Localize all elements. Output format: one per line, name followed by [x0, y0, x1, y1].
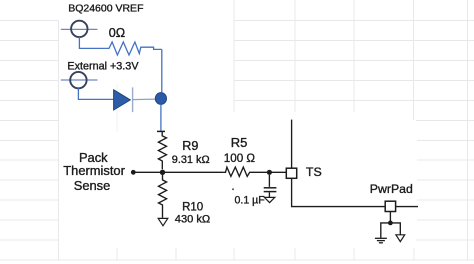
bottom row line — [0, 259, 474, 261]
PwrPad stub down — [389, 212, 391, 223]
earth ground symbol left of PwrPad — [375, 238, 387, 243]
ground arrow R10 (open triangle) — [158, 218, 168, 225]
capacitor plate top — [264, 187, 277, 189]
wire diode to junction — [133, 98, 156, 101]
column A edge — [57, 21, 59, 260]
columns top-right — [234, 0, 413, 120]
junction dot R9/R10 — [160, 170, 165, 175]
rows left strip — [0, 21, 58, 240]
wire External circle to diode anode — [78, 88, 113, 99]
stray dot artifact above 0.1uF — [232, 188, 234, 190]
svg-text:R5: R5 — [231, 135, 248, 150]
capacitor plate bottom — [264, 191, 277, 193]
capacitor C1 0.1uF vertical lead — [268, 175, 270, 187]
wire resistor down to node — [161, 49, 163, 93]
resistor R10 — [159, 175, 167, 218]
resistor 0 ohm (blue zigzag) — [106, 42, 162, 55]
TS pin square — [286, 168, 296, 178]
svg-text:430 kΩ: 430 kΩ — [175, 213, 210, 225]
ground arrow right of PwrPad (open triangle) — [396, 235, 405, 242]
junction node (blue dot) — [155, 93, 166, 105]
junction dot PwrPad ground — [388, 221, 393, 226]
TS pin vertical wire bottom and run to PwrPad — [292, 178, 418, 206]
PwrPad pin square — [385, 201, 395, 211]
wire endpoint dot (Pack Thermistor Sense) — [131, 170, 136, 175]
rows right strip — [417, 140, 474, 220]
bottom column ticks — [117, 248, 414, 260]
svg-text:TS: TS — [306, 165, 322, 179]
svg-text:R10: R10 — [182, 201, 203, 213]
diode D1 (blue) — [114, 90, 131, 110]
rows top-right block — [234, 21, 474, 101]
svg-text:BQ24600 VREF: BQ24600 VREF — [68, 3, 143, 15]
wire VREF circle to resistor 0ohm — [79, 37, 106, 49]
row segment right of overlay — [416, 120, 474, 240]
diode cathode bar — [132, 87, 134, 112]
wire Pack Thermistor Sense to R5 — [133, 171, 223, 173]
resistor R9 — [158, 131, 166, 169]
svg-text:Thermistor: Thermistor — [63, 163, 125, 178]
faint column segment near diode — [116, 84, 118, 132]
column far right — [467, 0, 469, 260]
svg-text:0.1 µF: 0.1 µF — [235, 194, 266, 206]
svg-text:100 Ω: 100 Ω — [224, 152, 256, 165]
svg-text:External +3.3V: External +3.3V — [67, 61, 139, 73]
node External +3.3V terminal lead line — [61, 79, 98, 81]
svg-text:0Ω: 0Ω — [109, 26, 125, 40]
resistor R5 — [223, 167, 286, 176]
ground branch right — [390, 223, 400, 235]
terminal circle External +3.3V — [70, 72, 86, 88]
ground branch left — [381, 223, 391, 238]
junction dot capacitor — [267, 170, 272, 175]
capacitor lower lead — [268, 192, 270, 197]
svg-text:9.31 kΩ: 9.31 kΩ — [172, 154, 210, 166]
TS pin vertical wire top — [291, 120, 293, 169]
terminal circle VREF — [71, 21, 87, 37]
wire junction down to R9 — [160, 104, 162, 130]
svg-text:R9: R9 — [182, 139, 198, 153]
svg-text:Sense: Sense — [74, 178, 111, 193]
resistor R9 top tick — [157, 130, 165, 132]
svg-text:PwrPad: PwrPad — [370, 182, 413, 196]
node BQ24600 VREF terminal lead line — [61, 28, 98, 30]
ground arrow capacitor (open triangle) — [264, 197, 274, 202]
